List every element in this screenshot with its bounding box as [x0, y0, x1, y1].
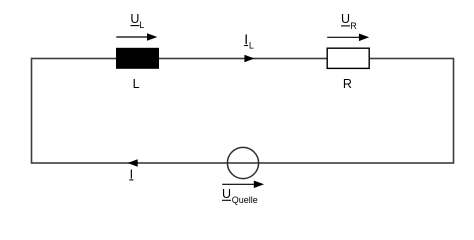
- svg-text:Quelle: Quelle: [232, 195, 258, 205]
- svg-text:U: U: [341, 12, 350, 26]
- svg-text:L: L: [139, 20, 144, 30]
- svg-text:L: L: [249, 41, 254, 51]
- svg-text:U: U: [130, 12, 139, 26]
- svg-text:U: U: [222, 187, 231, 201]
- svg-text:R: R: [350, 21, 357, 31]
- svg-text:I: I: [130, 167, 133, 181]
- svg-text:R: R: [343, 77, 352, 91]
- svg-text:I: I: [244, 31, 248, 47]
- svg-text:L: L: [133, 77, 140, 91]
